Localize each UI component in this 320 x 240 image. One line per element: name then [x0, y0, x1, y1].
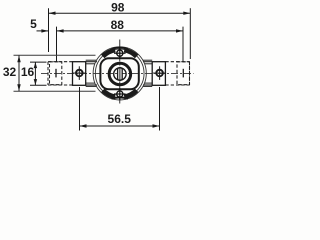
dimension 88: [57, 27, 184, 62]
clamp band wing bottom: [111, 97, 127, 98]
dimension 5: [37, 30, 49, 32]
screw S1 left clamp: [73, 66, 86, 80]
thermostat outer clamp band circles: [93, 47, 146, 100]
clamp bracket right: [152, 62, 165, 86]
rail dashed left segment: [48, 62, 73, 85]
clamp band wedge bottom-left: [101, 89, 116, 100]
screw S4 bottom (cross slot): [114, 88, 126, 100]
dimension 16: [30, 62, 47, 85]
thermostat body rounded square: [100, 58, 138, 89]
clamp band wedge top-right: [124, 48, 139, 59]
inner ring 2: [114, 68, 126, 80]
rail solid edges left of body: [86, 62, 97, 85]
svg-text:16: 16: [21, 65, 35, 79]
dimension 56.5: [80, 87, 160, 131]
svg-text:32: 32: [3, 65, 17, 79]
wire horizontal centerline: [41, 72, 194, 74]
node hole center mark left (dashed box): [55, 69, 57, 78]
svg-text:98: 98: [111, 0, 125, 14]
clamp band wing top: [112, 48, 128, 49]
clamp alternate position dashed box right: [177, 62, 190, 85]
center slot: [118, 68, 123, 80]
dimension 32: [14, 55, 96, 91]
rail solid edges right of body: [143, 62, 152, 85]
svg-text:56.5: 56.5: [108, 112, 132, 126]
screw S3 top (cross slot): [114, 47, 126, 59]
svg-text:5: 5: [30, 17, 37, 31]
clamp band wedge bottom-right: [124, 89, 139, 100]
flange edges left of body: [86, 60, 97, 86]
svg-text:88: 88: [111, 18, 125, 32]
clamp band wedge top-left: [101, 48, 116, 59]
wire vertical centerline: [119, 40, 121, 106]
node hole center mark right (dashed box): [182, 69, 184, 78]
clamp bracket left: [73, 62, 86, 86]
flange edges right of body: [143, 60, 152, 86]
body inner ring: [109, 63, 130, 85]
rail dashed right segment: [165, 62, 189, 85]
dimension 98: [49, 8, 191, 59]
clamp alternate position dashed box left: [50, 62, 62, 85]
screw S2 right clamp: [153, 66, 166, 80]
